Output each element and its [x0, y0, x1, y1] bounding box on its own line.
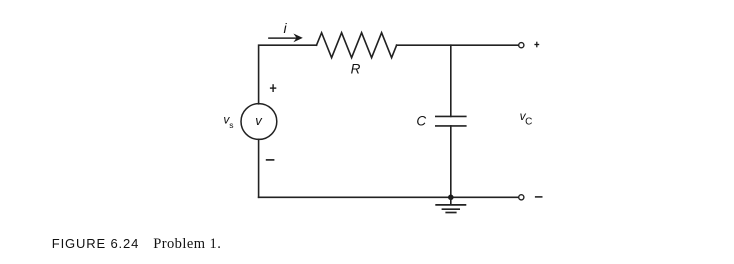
capacitor C bottom plate — [436, 125, 466, 127]
svg-text:FIGURE 6.24: FIGURE 6.24 — [52, 236, 139, 251]
svg-text:Problem 1.: Problem 1. — [153, 236, 221, 252]
resistor R — [317, 33, 397, 58]
label + terminal — [534, 42, 539, 48]
voltage source Vs circle — [241, 104, 277, 140]
wire capacitor branch bottom — [450, 126, 452, 197]
wire bottom rail — [259, 196, 519, 198]
wire capacitor branch top — [450, 45, 452, 116]
label - terminal — [535, 196, 543, 198]
wire top rail right — [397, 44, 519, 46]
current arrow i — [269, 37, 299, 39]
current arrow head — [293, 34, 302, 43]
svg-text:C: C — [525, 116, 532, 127]
svg-text:R: R — [351, 61, 361, 76]
wire left vertical (source to top rail) — [259, 45, 317, 104]
label - source — [266, 159, 275, 161]
svg-text:s: s — [229, 120, 233, 130]
junction dot — [448, 195, 454, 201]
capacitor C top plate — [436, 115, 466, 117]
svg-text:i: i — [283, 20, 287, 36]
wire source bottom vertical — [258, 139, 260, 197]
terminal top right — [519, 43, 524, 48]
ground — [435, 197, 466, 212]
svg-text:v: v — [255, 113, 263, 128]
label + source — [270, 84, 276, 92]
svg-text:C: C — [416, 113, 426, 128]
terminal bottom right — [519, 195, 524, 200]
